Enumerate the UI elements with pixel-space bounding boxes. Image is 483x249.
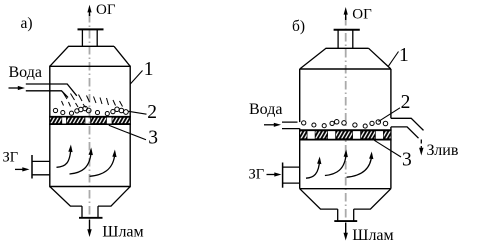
gas flow arrows (b): [306, 153, 372, 179]
water inlet pipe (b): [282, 122, 300, 129]
leader line 2 (b): [379, 108, 401, 122]
bottom cone (b): [300, 189, 391, 221]
leader line 3 (b): [374, 140, 401, 157]
grate layer 3 (a): [49, 117, 131, 125]
svg-text:б): б): [292, 18, 305, 35]
water inlet arrow (a): [9, 86, 26, 90]
sludge arrow (a): [87, 220, 91, 238]
leader line 1 (a): [130, 71, 142, 85]
center axis line (b): [345, 17, 347, 222]
svg-text:Вода: Вода: [249, 101, 282, 118]
svg-text:Вода: Вода: [9, 64, 42, 81]
vessel body 1 (b): [300, 69, 391, 189]
leader line 1 (b): [388, 52, 398, 67]
vessel body 1 (a): [50, 66, 130, 186]
water inlet arrow (b): [264, 123, 281, 127]
gas inlet arrow (a): [15, 167, 30, 171]
svg-text:Шлам: Шлам: [102, 224, 143, 241]
bottom cone (a): [50, 187, 130, 218]
gas inlet port (a): [32, 155, 50, 179]
svg-text:Злив: Злив: [427, 142, 459, 159]
gas inlet port (b): [283, 163, 300, 188]
top cone (a): [50, 46, 130, 66]
outlet stub chimney (b): [334, 30, 360, 49]
svg-text:ЗГ: ЗГ: [249, 167, 265, 183]
bubble layer 2 (b): [302, 120, 388, 129]
gas outlet arrow OG (a): [87, 5, 91, 16]
leader line 3 (a): [109, 125, 146, 140]
outlet stub chimney (a): [78, 29, 104, 46]
gas inlet arrow (b): [267, 172, 282, 176]
gas outlet arrow OG (b): [344, 7, 348, 20]
svg-text:ОГ: ОГ: [96, 2, 116, 18]
drain arrow (b): [419, 140, 423, 156]
svg-text:Шлам: Шлам: [352, 227, 393, 244]
svg-text:1: 1: [399, 45, 409, 66]
svg-text:ЗГ: ЗГ: [3, 150, 19, 166]
sludge outlet flange (b): [334, 220, 357, 222]
top cone (b): [300, 48, 391, 69]
grate layer 3 (b): [299, 130, 392, 139]
svg-text:3: 3: [148, 127, 158, 148]
bubble layer 2 (a): [53, 106, 128, 115]
leader line 2 (a): [129, 111, 147, 114]
center axis line (a): [89, 14, 91, 219]
drain pipe (b): [391, 118, 424, 138]
sludge outlet flange (a): [79, 217, 103, 219]
svg-text:2: 2: [147, 102, 157, 123]
sludge arrow (b): [344, 223, 348, 241]
svg-text:2: 2: [401, 92, 411, 113]
water inlet pipe (a): [26, 84, 77, 98]
svg-text:3: 3: [402, 150, 412, 171]
spray jets (a): [62, 93, 123, 108]
gas flow arrow left (a): [57, 148, 115, 177]
svg-text:а): а): [21, 15, 33, 32]
svg-text:ОГ: ОГ: [352, 6, 372, 22]
svg-text:1: 1: [144, 59, 154, 80]
